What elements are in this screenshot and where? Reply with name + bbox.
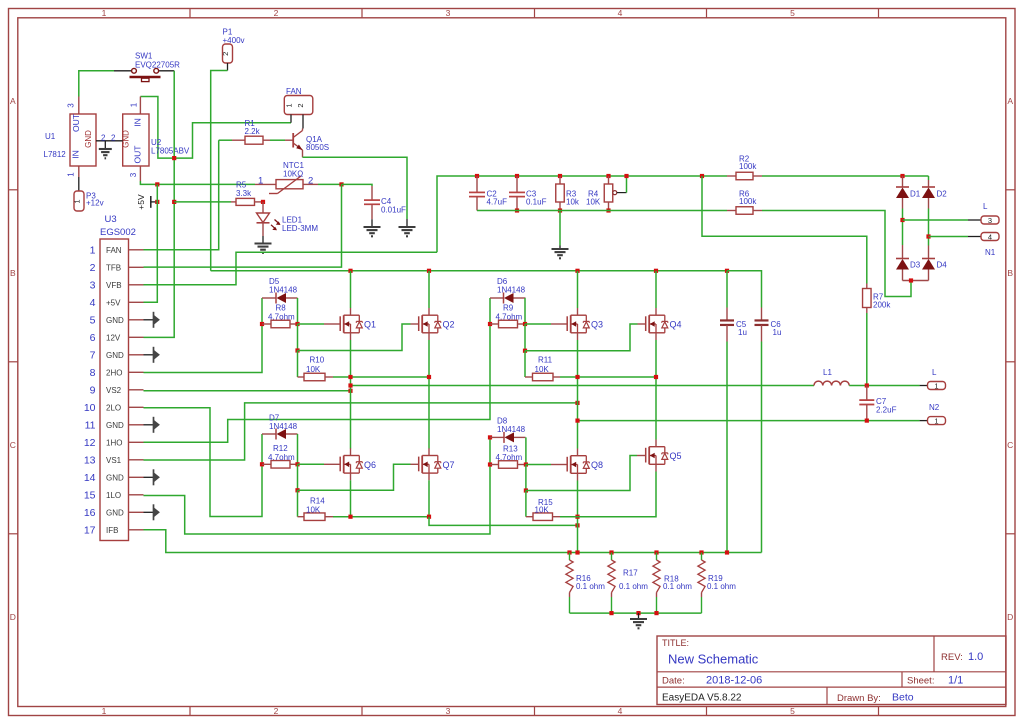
svg-text:1N4148: 1N4148 <box>269 422 298 431</box>
inductor L1 <box>814 381 849 385</box>
U3 pin 14 GND <box>129 476 144 478</box>
resistor R9 4.7ohm <box>488 322 492 326</box>
svg-text:10: 10 <box>84 402 96 414</box>
FAN pin stubs <box>290 115 292 123</box>
svg-text:4.7ohm: 4.7ohm <box>268 453 295 462</box>
U3 pin 10 2LO <box>129 406 144 408</box>
svg-text:1N4148: 1N4148 <box>497 425 526 434</box>
shunt resistor R17 0.1 ohm <box>611 553 613 561</box>
title block outline <box>657 636 1006 705</box>
wire N2 row <box>578 420 920 422</box>
wire gate node to Q7 gate <box>297 464 299 490</box>
svg-text:2: 2 <box>111 133 116 142</box>
wire U2 IN from 12V rail <box>140 97 291 159</box>
wire P1 to +400V rail <box>227 63 229 71</box>
wire U3 2LO to R12/D7 <box>144 408 263 517</box>
svg-text:L1: L1 <box>823 368 832 377</box>
U3 pin 12 1HO <box>129 441 144 443</box>
svg-text:Q4: Q4 <box>670 320 682 330</box>
shunt resistor R19 0.1 ohm <box>701 553 703 561</box>
junction 12V rail fan branch <box>172 156 176 160</box>
wire left sources to Q8 source <box>429 517 578 526</box>
svg-text:9: 9 <box>90 385 96 397</box>
wire 12V rail SW1 to U3 pin6 <box>144 71 175 338</box>
svg-text:4: 4 <box>618 8 623 18</box>
svg-text:1: 1 <box>285 103 294 107</box>
U3 pin 5 GND <box>129 319 144 321</box>
svg-text:8: 8 <box>90 367 96 379</box>
MOSFET Q5 <box>645 448 647 463</box>
svg-text:GND: GND <box>106 351 124 360</box>
svg-text:1LO: 1LO <box>106 491 121 500</box>
svg-text:14: 14 <box>84 472 96 484</box>
svg-text:100k: 100k <box>739 162 757 171</box>
svg-text:EVQ22705R: EVQ22705R <box>135 61 180 70</box>
svg-text:0.1 ohm: 0.1 ohm <box>619 582 648 591</box>
wire to port 4 <box>929 236 969 238</box>
U3 pin 17 IFB <box>129 529 144 531</box>
junction bridge bottom <box>909 278 913 282</box>
capacitor C7 2.2uF <box>866 386 868 401</box>
svg-text:B: B <box>10 268 16 278</box>
svg-text:0.1uF: 0.1uF <box>526 197 547 206</box>
svg-text:2HO: 2HO <box>106 368 122 377</box>
R4 wiper <box>613 191 617 195</box>
svg-text:0.1 ohm: 0.1 ohm <box>663 582 692 591</box>
svg-text:4: 4 <box>618 706 623 716</box>
svg-text:1: 1 <box>102 706 107 716</box>
resistor R1 2.2k <box>232 139 245 141</box>
svg-text:A: A <box>10 96 16 106</box>
MOSFET Q1 <box>339 316 341 331</box>
svg-text:TFB: TFB <box>106 263 121 272</box>
U3 pin 13 VS1 <box>129 459 144 461</box>
wire junction to C4 <box>342 184 373 186</box>
svg-text:3: 3 <box>988 216 992 225</box>
svg-text:D4: D4 <box>937 261 948 270</box>
svg-text:2: 2 <box>90 262 96 274</box>
svg-text:Sheet:: Sheet: <box>907 676 934 687</box>
diode D4 <box>928 246 930 259</box>
wire Q8 source down to shunt rail <box>577 481 579 553</box>
svg-text:16: 16 <box>84 507 96 519</box>
svg-text:10K: 10K <box>306 506 321 515</box>
svg-text:B: B <box>1007 268 1013 278</box>
svg-text:GND: GND <box>106 508 124 517</box>
wire U2 OUT +5V row <box>140 181 255 184</box>
junction port4 branch <box>926 234 930 238</box>
resistor R14 10K <box>297 490 299 516</box>
wire U3 1LO to R13/D8 <box>144 437 491 534</box>
connector P3 +12v <box>78 177 80 192</box>
wire R8 to Q1 gate <box>298 323 325 325</box>
svg-text:IFB: IFB <box>106 526 118 535</box>
svg-text:1N4148: 1N4148 <box>269 285 298 294</box>
svg-text:2: 2 <box>274 706 279 716</box>
svg-text:C: C <box>1007 440 1013 450</box>
title block dividers <box>657 671 1006 673</box>
svg-text:R12: R12 <box>273 444 288 453</box>
svg-text:3: 3 <box>90 280 96 292</box>
svg-text:FAN: FAN <box>286 87 302 96</box>
capacitor C3 0.1uF <box>515 174 519 178</box>
thermistor NTC1 10K <box>255 183 276 185</box>
svg-text:7: 7 <box>90 350 96 362</box>
frame column ticks top/bottom <box>189 9 191 18</box>
svg-text:+5V: +5V <box>136 194 146 210</box>
U3 pin 8 2HO <box>129 371 144 373</box>
GND port arrow at U3 pin 14 <box>144 476 154 478</box>
svg-text:2: 2 <box>308 176 313 187</box>
voltage regulator U1 L7812 <box>78 97 80 115</box>
svg-text:10k: 10k <box>566 197 580 206</box>
wire 12V to R5 <box>174 201 231 203</box>
switch SW1 EVQ22705R <box>114 70 132 72</box>
svg-text:4: 4 <box>988 233 992 242</box>
svg-text:1.0: 1.0 <box>968 651 983 663</box>
svg-text:10KΩ: 10KΩ <box>283 169 303 178</box>
svg-text:VS2: VS2 <box>106 386 122 395</box>
svg-text:13: 13 <box>84 455 96 467</box>
svg-text:R11: R11 <box>538 356 553 365</box>
wire Q7 source down <box>428 480 430 516</box>
resistor R2 100k <box>727 175 736 177</box>
diode D2 <box>928 176 930 180</box>
svg-text:4.7ohm: 4.7ohm <box>268 313 295 322</box>
svg-text:2.2k: 2.2k <box>245 127 261 136</box>
svg-text:4.7uF: 4.7uF <box>487 197 508 206</box>
svg-text:1HO: 1HO <box>106 438 122 447</box>
port 1 N2 output <box>928 417 946 425</box>
transistor Q1A 8050S <box>285 139 293 141</box>
shunt resistor R16 0.1 ohm <box>569 553 571 561</box>
junction TFB node <box>339 182 343 186</box>
svg-text:OUT: OUT <box>71 114 81 132</box>
wire VFB top rail <box>437 176 727 252</box>
LED1 emission arrows <box>275 220 280 225</box>
svg-text:Beto: Beto <box>892 692 914 704</box>
junction R7 top branch <box>700 174 704 178</box>
wire Q4 drain to rail <box>654 269 658 273</box>
svg-text:10K: 10K <box>306 365 321 374</box>
voltage regulator U2 L7805ABV <box>139 97 141 115</box>
svg-text:12: 12 <box>84 437 96 449</box>
svg-text:Date:: Date: <box>662 676 685 687</box>
svg-text:IN: IN <box>71 150 81 159</box>
svg-text:Q5: Q5 <box>670 451 682 461</box>
svg-text:L7805ABV: L7805ABV <box>151 147 190 156</box>
svg-text:2018-12-06: 2018-12-06 <box>706 675 762 687</box>
svg-text:5: 5 <box>90 315 96 327</box>
ground symbol between U1 and U2 <box>104 141 106 149</box>
svg-text:Drawn By:: Drawn By: <box>837 693 881 704</box>
wire U3 VFB to divider rail <box>144 252 438 284</box>
U3 pin 2 TFB <box>129 266 144 268</box>
ground under divider rail <box>559 211 561 246</box>
svg-text:200k: 200k <box>873 301 891 310</box>
svg-text:1: 1 <box>72 199 81 203</box>
GND port arrow at U3 pin 11 <box>144 424 154 426</box>
svg-text:5: 5 <box>790 8 795 18</box>
svg-text:2: 2 <box>274 8 279 18</box>
connector P1 +400v <box>223 44 233 63</box>
U3 pin 16 GND <box>129 511 144 513</box>
wire D2 to D4 <box>928 209 930 246</box>
wire U3 IFB to shunt rail <box>144 530 762 553</box>
connector FAN <box>284 96 313 115</box>
svg-text:+5V: +5V <box>106 298 121 307</box>
svg-text:1: 1 <box>90 245 96 257</box>
svg-text:10K: 10K <box>586 197 601 206</box>
wire Q3 source down <box>577 340 579 449</box>
junction port3 branch <box>900 218 904 222</box>
svg-text:Q8: Q8 <box>591 460 603 470</box>
svg-text:A: A <box>1007 96 1013 106</box>
wire bridge output to L1 <box>351 385 815 387</box>
U3 pin 3 VFB <box>129 284 144 286</box>
svg-text:1: 1 <box>102 8 107 18</box>
svg-text:L: L <box>983 202 988 211</box>
svg-text:1: 1 <box>934 417 938 426</box>
svg-text:LED-3MM: LED-3MM <box>282 224 318 233</box>
wire Q6 source down <box>350 480 352 516</box>
svg-text:3: 3 <box>67 103 76 108</box>
port 4 N1 <box>981 233 999 241</box>
wire R7 top from rail <box>702 176 867 284</box>
junction D1 top <box>900 174 904 178</box>
junction 12V rail R5 branch <box>172 200 176 204</box>
wire U1 OUT to SW1 left <box>79 71 114 97</box>
U3 pin 4 +5V <box>129 301 144 303</box>
svg-text:GND: GND <box>106 421 124 430</box>
svg-text:1: 1 <box>934 382 938 391</box>
GND port arrow at U3 pin 16 <box>144 511 154 513</box>
svg-text:IN: IN <box>133 118 143 127</box>
svg-text:R10: R10 <box>310 356 325 365</box>
wire shunt bottom rail <box>570 612 702 614</box>
svg-text:SW1: SW1 <box>135 52 153 61</box>
svg-text:D: D <box>10 612 16 622</box>
wire Q3 drain to rail <box>575 269 579 273</box>
MOSFET Q6 <box>339 457 341 472</box>
wire U3 FAN to R1 <box>144 140 219 250</box>
svg-text:1: 1 <box>130 102 139 107</box>
svg-text:Q3: Q3 <box>591 320 603 330</box>
svg-text:2LO: 2LO <box>106 403 121 412</box>
svg-text:8050S: 8050S <box>306 143 329 152</box>
svg-text:R17: R17 <box>623 569 638 578</box>
U3 pin 7 GND <box>129 354 144 356</box>
svg-text:3.3k: 3.3k <box>236 189 252 198</box>
svg-text:12V: 12V <box>106 333 121 342</box>
svg-text:U3: U3 <box>105 214 117 225</box>
resistor R7 200k <box>866 284 868 289</box>
wire R9 to Q3 gate <box>525 323 551 325</box>
wire gate node to Q5 gate <box>525 465 527 491</box>
wire bottom rail of divider <box>477 210 727 212</box>
svg-text:Q6: Q6 <box>364 460 376 470</box>
diode D3 <box>902 245 904 259</box>
wire R11 to sources <box>560 376 656 378</box>
wire R1 to Q1A base <box>270 139 285 141</box>
diode D5 1N4148 <box>261 298 263 324</box>
svg-text:2: 2 <box>221 52 230 56</box>
U3 pin 1 FAN <box>129 249 144 251</box>
wire R10 to sources <box>333 376 429 378</box>
port 1 L output <box>928 382 946 390</box>
potentiometer R4 10K <box>606 174 610 178</box>
wire R6 to bridge bottom <box>762 211 911 297</box>
wire NTC1 to junction <box>318 183 342 185</box>
svg-text:3: 3 <box>129 172 138 177</box>
svg-text:15: 15 <box>84 490 96 502</box>
port 3 L <box>981 216 999 224</box>
svg-text:REV:: REV: <box>941 652 963 663</box>
svg-text:100k: 100k <box>739 197 757 206</box>
resistor R6 100k <box>727 210 736 212</box>
svg-text:0.1 ohm: 0.1 ohm <box>707 582 736 591</box>
svg-text:VFB: VFB <box>106 281 122 290</box>
U3 pin 11 GND <box>129 424 144 426</box>
svg-text:N1: N1 <box>985 248 996 257</box>
junction shunt rail <box>567 550 571 554</box>
svg-text:1u: 1u <box>738 328 747 337</box>
svg-text:VS1: VS1 <box>106 456 122 465</box>
svg-text:0.01uF: 0.01uF <box>381 206 406 215</box>
svg-text:10K: 10K <box>535 365 550 374</box>
svg-text:1/1: 1/1 <box>948 675 963 687</box>
svg-text:R8: R8 <box>276 304 287 313</box>
svg-text:1: 1 <box>258 176 263 187</box>
capacitor C5 1u <box>725 269 729 273</box>
svg-text:R9: R9 <box>503 304 514 313</box>
svg-text:R14: R14 <box>310 496 325 505</box>
wire FAN net to R1 <box>219 139 232 141</box>
wire R14 to sources <box>333 516 429 518</box>
diode D6 1N4148 <box>489 298 491 324</box>
svg-text:1u: 1u <box>773 328 782 337</box>
svg-text:EGS002: EGS002 <box>100 227 136 238</box>
svg-text:L7812: L7812 <box>44 150 67 159</box>
svg-text:Q2: Q2 <box>443 320 455 330</box>
svg-text:EasyEDA V5.8.22: EasyEDA V5.8.22 <box>662 693 742 704</box>
LED LED1 LED-3MM <box>262 202 264 213</box>
svg-text:TITLE:: TITLE: <box>662 638 689 648</box>
wire U3 1HO to R9/D6 <box>144 324 491 442</box>
svg-text:GND: GND <box>106 473 124 482</box>
capacitor C6 1u <box>727 271 762 308</box>
svg-text:4.7ohm: 4.7ohm <box>496 313 523 322</box>
wire Q2 source down <box>428 340 430 449</box>
resistor R15 10K <box>525 491 527 517</box>
svg-text:C: C <box>10 440 16 450</box>
capacitor C2 4.7uF <box>475 174 479 178</box>
svg-text:N2: N2 <box>929 403 940 412</box>
wire L1 to port L <box>849 385 919 387</box>
wire U3 VS1 to bridge mid 2 <box>144 403 578 460</box>
MOSFET Q7 <box>418 457 420 472</box>
svg-text:2.2uF: 2.2uF <box>876 405 897 414</box>
ground at shunt rail <box>636 611 640 615</box>
svg-text:3: 3 <box>446 706 451 716</box>
junction C7 bottom <box>865 419 869 423</box>
svg-text:3: 3 <box>446 8 451 18</box>
wire Q1 source down <box>350 340 352 449</box>
wire bridge bottom bar <box>903 280 929 282</box>
wire U3 TFB to NTC junction <box>144 184 342 267</box>
junction R5-LED1 <box>261 200 265 204</box>
svg-text:Q1: Q1 <box>364 320 376 330</box>
wire Q2 drain to rail <box>427 269 431 273</box>
resistor R13 4.7ohm <box>488 462 492 466</box>
MOSFET Q4 <box>645 316 647 331</box>
wire R12 to Q6 gate <box>298 463 325 465</box>
svg-text:D: D <box>1007 612 1013 622</box>
svg-text:4: 4 <box>90 297 96 309</box>
svg-text:6: 6 <box>90 332 96 344</box>
capacitor C4 0.01uF <box>371 186 373 200</box>
diode D1 <box>902 176 904 187</box>
svg-text:2: 2 <box>296 103 305 107</box>
U3 pin 6 12V <box>129 336 144 338</box>
wire R7 bottom to L node <box>866 313 868 386</box>
wire Q5 source to R15 node <box>578 472 657 517</box>
svg-text:1N4148: 1N4148 <box>497 285 526 294</box>
svg-text:GND: GND <box>106 316 124 325</box>
resistor R10 10K <box>297 351 299 378</box>
svg-text:1: 1 <box>67 172 76 177</box>
svg-text:Q7: Q7 <box>443 460 455 470</box>
svg-text:New Schematic: New Schematic <box>668 652 759 667</box>
svg-text:D2: D2 <box>937 190 948 199</box>
GND port arrow at U3 pin 7 <box>144 354 154 356</box>
MOSFET Q2 <box>418 316 420 331</box>
svg-text:L: L <box>932 368 937 377</box>
U3 pin 9 VS2 <box>129 389 144 391</box>
svg-text:11: 11 <box>85 420 96 432</box>
resistor R8 4.7ohm <box>260 322 264 326</box>
junction VS1 <box>575 401 579 405</box>
svg-text:0.1 ohm: 0.1 ohm <box>576 582 605 591</box>
wire gate node to Q2 gate <box>297 324 299 351</box>
ground at LED1 <box>262 236 264 243</box>
junction VS2 <box>348 389 352 393</box>
wire to port 3 <box>903 219 969 221</box>
svg-text:GND: GND <box>84 130 93 148</box>
resistor R5 3.3k <box>231 201 236 203</box>
U3 pin 15 1LO <box>129 494 144 496</box>
wire U3 2HO to R8/D5 <box>144 324 263 373</box>
resistor R12 4.7ohm <box>260 462 264 466</box>
svg-text:+400v: +400v <box>223 36 245 45</box>
svg-text:FAN: FAN <box>106 246 122 255</box>
IC U3 EGS002 <box>100 239 129 541</box>
GND port arrow at U3 pin 5 <box>144 319 154 321</box>
junction +5V row at x157 <box>155 182 159 186</box>
svg-text:17: 17 <box>84 525 96 537</box>
diode D8 1N4148 <box>488 435 492 439</box>
svg-text:D1: D1 <box>910 190 921 199</box>
resistor R11 10K <box>524 351 526 377</box>
junction L node <box>865 383 869 387</box>
junction +5V flag <box>155 200 159 204</box>
ground at C4 <box>371 219 373 226</box>
wire D1 to D3 <box>902 209 904 246</box>
wire Q1 drain to rail <box>348 269 352 273</box>
svg-text:GND: GND <box>122 130 131 148</box>
svg-text:10K: 10K <box>535 506 550 515</box>
svg-text:OUT: OUT <box>133 146 143 164</box>
